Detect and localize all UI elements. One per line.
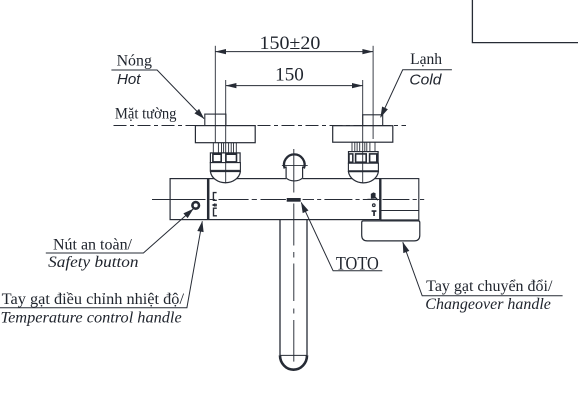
hot escutcheon flange [195,126,255,143]
svg-text:Nút an toàn/: Nút an toàn/ [53,236,133,253]
svg-text:Tay gạt chuyển đổi/: Tay gạt chuyển đổi/ [426,278,553,295]
drawing frame corner (top right) [472,0,578,43]
spout end cap [280,355,307,369]
cold supply eccentric: wall stub [363,115,383,126]
svg-text:Tay gạt điều chỉnh nhiệt độ/: Tay gạt điều chỉnh nhiệt độ/ [2,291,185,308]
leader: changeover handle [403,242,563,296]
changeover handle grip [362,221,420,241]
cold union nut [349,152,379,164]
svg-text:Cold: Cold [409,72,442,88]
changeover handle upper block [381,179,419,220]
vertical centerline (shower/spout axis) [293,149,295,362]
svg-text:Temperature control handle: Temperature control handle [1,310,182,327]
cold threads [352,142,375,151]
hot threads [213,143,236,153]
horizontal centerline [152,199,424,201]
hot union nut [210,153,240,163]
svg-text:Changeover handle: Changeover handle [425,296,551,313]
svg-text:150: 150 [275,64,304,85]
svg-text:150±20: 150±20 [260,33,321,54]
hot dome [210,172,240,183]
cold dome [348,172,378,183]
safety button [192,202,199,209]
leader: hot label [111,70,204,119]
temperature scale pointer [212,203,217,207]
temperature scale mark lower [214,208,217,216]
leader: temperature control handle [0,221,202,307]
svg-text:TOTO: TOTO [336,254,379,274]
changeover icon: dot [373,204,376,207]
svg-text:Nóng: Nóng [117,53,153,70]
svg-text:Lạnh: Lạnh [410,51,442,68]
cold escutcheon flange [333,126,393,143]
handle inner line [381,210,419,212]
changeover icon: shower [371,192,376,198]
hot nut lower band [210,163,240,171]
spout [279,220,281,356]
shower outlet horizontal centerline tick [282,164,308,166]
TOTO logo mark on body [287,198,301,202]
svg-text:Safety button: Safety button [48,254,138,271]
dimension 150±20: extension lines [214,46,216,143]
dimension 150: dimension line [226,85,363,87]
cold nut lower band [348,163,378,171]
faucet body [170,179,380,220]
changeover boundary (thick) [379,179,381,220]
dimension 150: extension lines [225,80,227,183]
leader: safety button [46,209,194,253]
temperature scale mark upper [213,193,216,201]
wall line (dash-dot) [114,125,407,127]
leader: cold label [381,70,452,118]
svg-text:Mặt tường: Mặt tường [115,106,177,123]
dimension 150±20: dimension line [215,51,373,53]
shower outlet dome (center) [286,164,303,182]
temperature handle boundary (thick) [207,179,210,220]
hot supply eccentric: wall stub [205,114,226,126]
changeover icon: spout [372,210,377,216]
leader: TOTO [301,202,382,270]
svg-text:Hot: Hot [117,72,141,88]
